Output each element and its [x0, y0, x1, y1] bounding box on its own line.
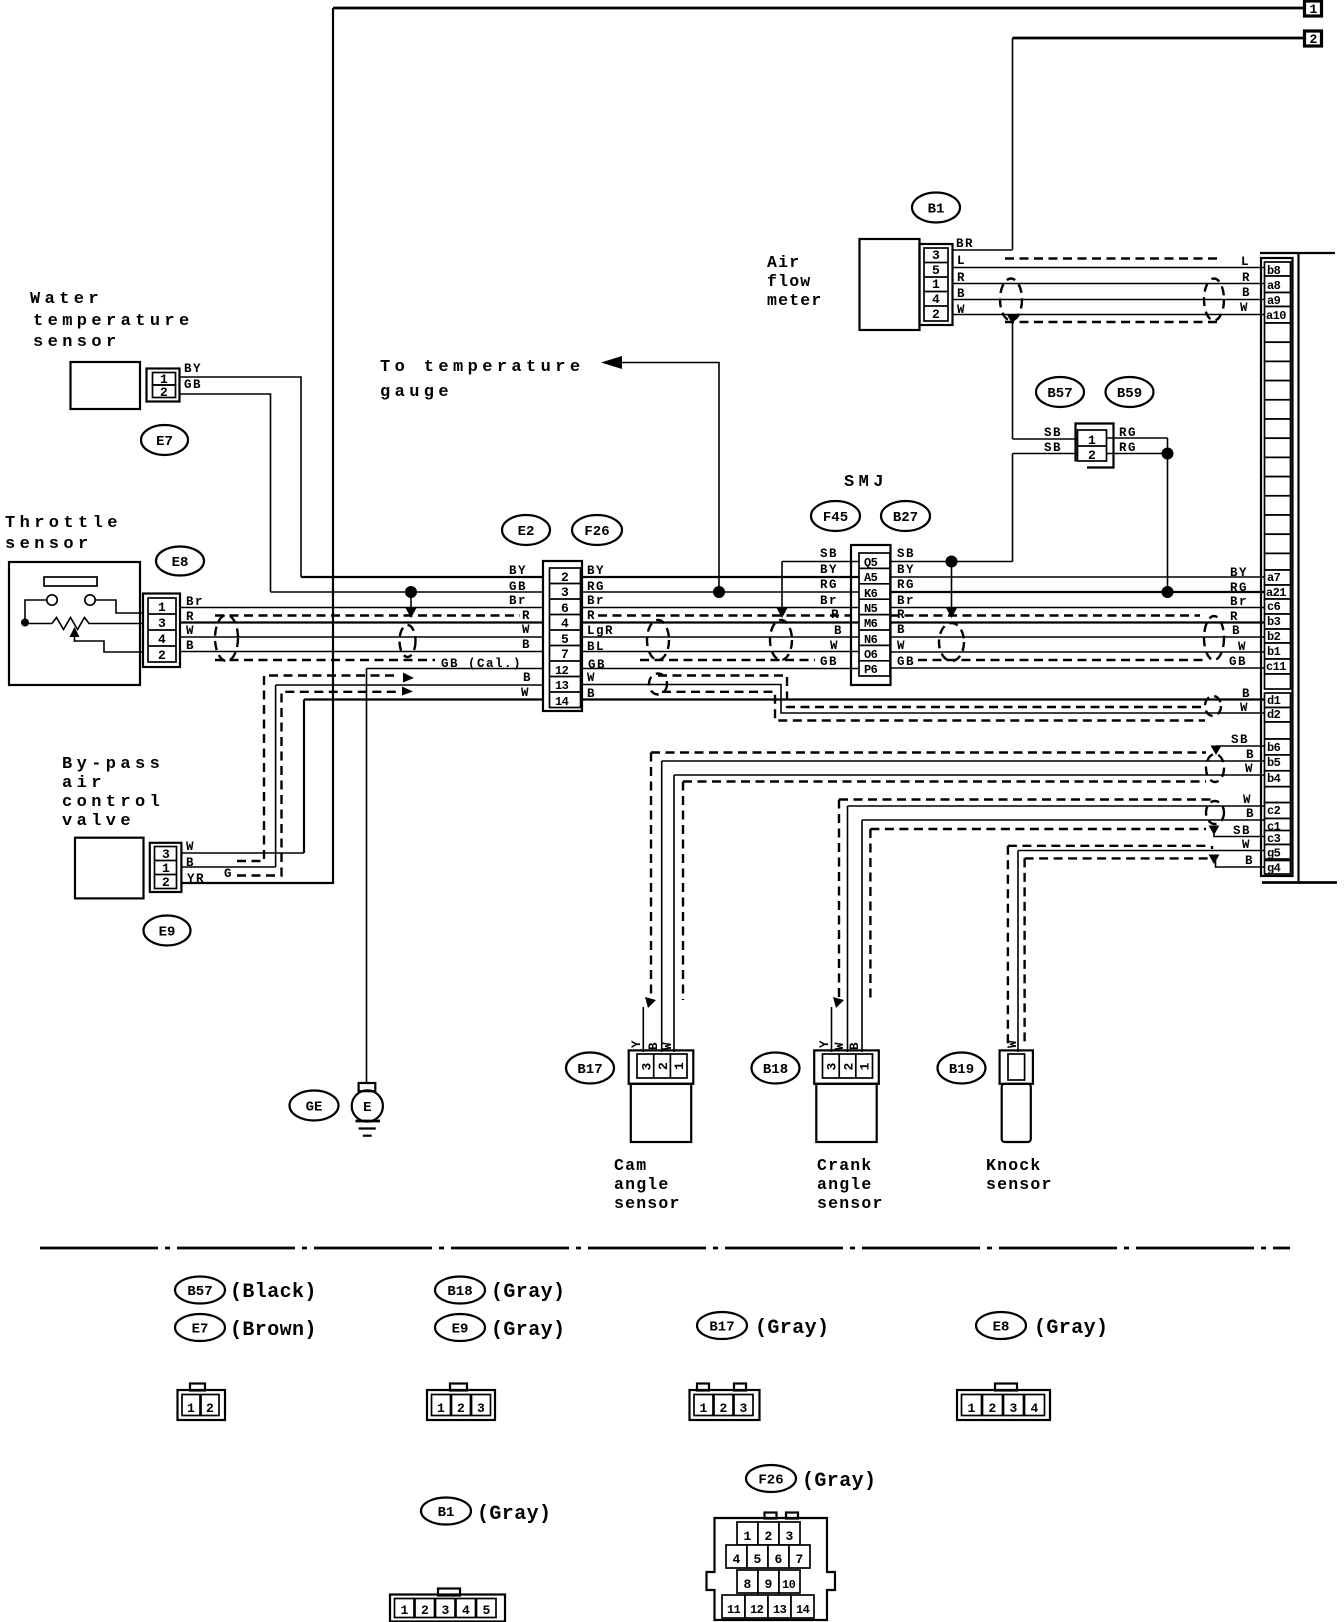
svg-text:R: R — [897, 608, 906, 622]
svg-text:Knock: Knock — [986, 1156, 1042, 1175]
svg-text:g4: g4 — [1267, 862, 1281, 876]
svg-text:3: 3 — [786, 1529, 794, 1544]
svg-text:Y: Y — [630, 1039, 644, 1048]
svg-text:air: air — [62, 774, 106, 793]
svg-text:sensor: sensor — [817, 1194, 884, 1213]
svg-text:b1: b1 — [1267, 645, 1281, 659]
svg-text:W: W — [1006, 1039, 1020, 1048]
svg-text:Water: Water — [30, 290, 103, 309]
svg-text:Br: Br — [587, 594, 605, 608]
svg-text:5: 5 — [483, 1603, 491, 1618]
svg-text:Y: Y — [818, 1039, 832, 1048]
svg-text:temperature: temperature — [33, 312, 194, 331]
svg-text:c2: c2 — [1267, 804, 1281, 818]
svg-text:b8: b8 — [1267, 264, 1281, 278]
svg-text:2: 2 — [160, 385, 168, 400]
svg-text:3: 3 — [1010, 1401, 1018, 1416]
svg-text:B57: B57 — [1047, 386, 1072, 402]
svg-text:E7: E7 — [156, 434, 173, 450]
svg-text:O6: O6 — [864, 648, 878, 662]
svg-text:b4: b4 — [1267, 772, 1281, 786]
svg-text:SMJ: SMJ — [844, 473, 888, 492]
svg-text:valve: valve — [62, 812, 135, 831]
svg-text:c6: c6 — [1267, 600, 1281, 614]
svg-text:2: 2 — [720, 1401, 728, 1416]
svg-text:B18: B18 — [763, 1062, 788, 1078]
svg-text:B27: B27 — [893, 510, 918, 526]
svg-text:1: 1 — [187, 1401, 195, 1416]
svg-text:1: 1 — [744, 1529, 752, 1544]
svg-text:8: 8 — [744, 1577, 752, 1592]
svg-text:a21: a21 — [1266, 586, 1286, 600]
svg-text:3: 3 — [442, 1603, 450, 1618]
svg-text:B: B — [1232, 624, 1241, 638]
svg-text:B: B — [1245, 854, 1254, 868]
svg-text:B18: B18 — [447, 1284, 472, 1300]
svg-text:7: 7 — [561, 647, 569, 662]
svg-text:B57: B57 — [187, 1284, 212, 1300]
svg-text:(Gray): (Gray) — [1034, 1317, 1108, 1340]
svg-text:4: 4 — [158, 632, 166, 647]
svg-text:W: W — [833, 1041, 847, 1050]
svg-text:Br: Br — [897, 594, 915, 608]
svg-text:BY: BY — [509, 564, 527, 578]
svg-text:BY: BY — [820, 563, 838, 577]
svg-text:GB: GB — [509, 580, 527, 594]
svg-text:3: 3 — [740, 1401, 748, 1416]
svg-text:d2: d2 — [1267, 708, 1281, 722]
svg-text:B: B — [587, 687, 596, 701]
svg-text:2: 2 — [158, 648, 166, 663]
svg-text:G: G — [224, 867, 233, 881]
svg-text:10: 10 — [782, 1578, 796, 1592]
svg-text:13: 13 — [555, 679, 569, 693]
svg-text:sensor: sensor — [986, 1175, 1053, 1194]
svg-text:To temperature: To temperature — [380, 358, 584, 377]
svg-text:b2: b2 — [1267, 630, 1281, 644]
svg-text:1: 1 — [968, 1401, 976, 1416]
svg-text:RG: RG — [897, 578, 915, 592]
svg-text:4: 4 — [1031, 1401, 1039, 1416]
svg-text:E7: E7 — [192, 1322, 209, 1338]
svg-text:Br: Br — [1230, 595, 1248, 609]
svg-text:B17: B17 — [577, 1062, 602, 1078]
svg-text:1: 1 — [932, 277, 940, 292]
svg-text:RG: RG — [1230, 581, 1248, 595]
svg-text:gauge: gauge — [380, 383, 453, 402]
svg-text:2: 2 — [421, 1603, 429, 1618]
svg-text:(Black): (Black) — [230, 1281, 317, 1304]
svg-text:angle: angle — [614, 1175, 670, 1194]
svg-text:3: 3 — [158, 616, 166, 631]
svg-text:(Gray): (Gray) — [802, 1470, 876, 1493]
svg-text:M6: M6 — [864, 617, 878, 631]
svg-text:3: 3 — [640, 1063, 655, 1071]
svg-text:c3: c3 — [1267, 832, 1281, 846]
svg-text:d1: d1 — [1267, 694, 1281, 708]
svg-text:14: 14 — [796, 1603, 810, 1617]
svg-text:B17: B17 — [709, 1320, 734, 1336]
svg-text:5: 5 — [754, 1552, 762, 1567]
svg-text:2: 2 — [989, 1401, 997, 1416]
svg-text:Air: Air — [767, 253, 800, 272]
svg-text:B: B — [522, 638, 531, 652]
svg-text:F45: F45 — [823, 510, 848, 526]
svg-text:6: 6 — [561, 601, 569, 616]
svg-text:2: 2 — [842, 1063, 857, 1071]
svg-text:1: 1 — [162, 861, 170, 876]
svg-text:b3: b3 — [1267, 615, 1281, 629]
svg-text:4: 4 — [932, 292, 940, 307]
svg-text:sensor: sensor — [5, 535, 93, 554]
svg-text:N6: N6 — [864, 633, 878, 647]
svg-text:2: 2 — [1310, 32, 1318, 47]
svg-text:BY: BY — [587, 564, 605, 578]
svg-text:B: B — [848, 1041, 862, 1050]
svg-text:SB: SB — [1231, 733, 1249, 747]
svg-text:11: 11 — [727, 1603, 741, 1617]
svg-text:(Brown): (Brown) — [230, 1319, 317, 1342]
svg-text:B: B — [186, 856, 195, 870]
svg-text:1: 1 — [858, 1063, 873, 1071]
svg-text:P6: P6 — [864, 663, 878, 677]
svg-text:1: 1 — [1310, 2, 1318, 17]
svg-text:sensor: sensor — [33, 333, 121, 352]
svg-text:1: 1 — [672, 1062, 687, 1070]
svg-text:W: W — [897, 639, 906, 653]
svg-text:W: W — [521, 686, 530, 700]
svg-text:W: W — [186, 624, 195, 638]
svg-text:SB: SB — [1044, 426, 1062, 440]
svg-text:W: W — [661, 1041, 675, 1050]
svg-text:1: 1 — [1088, 433, 1096, 448]
svg-text:SB: SB — [897, 547, 915, 561]
svg-text:B: B — [1242, 286, 1251, 300]
svg-text:3: 3 — [477, 1401, 485, 1416]
svg-text:GB: GB — [1229, 655, 1247, 669]
svg-text:LgR: LgR — [587, 624, 614, 638]
svg-text:2: 2 — [1088, 448, 1096, 463]
svg-text:GB: GB — [820, 655, 838, 669]
svg-text:W: W — [1245, 762, 1254, 776]
svg-text:BY: BY — [1230, 566, 1248, 580]
svg-text:5: 5 — [932, 263, 940, 278]
svg-text:B59: B59 — [1117, 386, 1142, 402]
svg-text:RG: RG — [587, 580, 605, 594]
svg-text:E2: E2 — [518, 524, 535, 540]
svg-text:B: B — [1246, 748, 1255, 762]
svg-text:RG: RG — [820, 578, 838, 592]
svg-text:4: 4 — [462, 1603, 470, 1618]
svg-text:B: B — [523, 671, 532, 685]
svg-text:Br: Br — [820, 594, 838, 608]
svg-text:BR: BR — [956, 237, 974, 251]
svg-text:angle: angle — [817, 1175, 873, 1194]
svg-text:W: W — [1243, 793, 1252, 807]
svg-text:Cam: Cam — [614, 1156, 647, 1175]
svg-text:B1: B1 — [928, 202, 945, 218]
svg-text:1: 1 — [401, 1603, 409, 1618]
svg-text:R: R — [1230, 610, 1239, 624]
svg-text:BY: BY — [184, 362, 202, 376]
svg-text:GB (Cal.): GB (Cal.) — [441, 657, 522, 671]
svg-text:E9: E9 — [452, 1322, 469, 1338]
svg-text:E: E — [363, 1100, 371, 1116]
svg-text:B: B — [1246, 807, 1255, 821]
svg-text:By-pass: By-pass — [62, 755, 164, 774]
svg-text:2: 2 — [561, 570, 569, 585]
svg-text:a10: a10 — [1266, 309, 1286, 323]
svg-text:F26: F26 — [584, 524, 609, 540]
svg-text:B1: B1 — [438, 1505, 455, 1521]
svg-text:c11: c11 — [1266, 660, 1286, 674]
svg-text:control: control — [62, 793, 164, 812]
svg-text:5: 5 — [561, 632, 569, 647]
svg-text:W: W — [830, 639, 839, 653]
svg-text:1: 1 — [437, 1401, 445, 1416]
svg-text:B: B — [834, 624, 843, 638]
svg-text:BL: BL — [587, 640, 605, 654]
svg-text:12: 12 — [555, 664, 569, 678]
svg-text:12: 12 — [750, 1603, 764, 1617]
svg-text:3: 3 — [162, 847, 170, 862]
svg-text:R: R — [587, 609, 596, 623]
svg-text:2: 2 — [932, 307, 940, 322]
svg-text:W: W — [1240, 701, 1249, 715]
svg-text:b5: b5 — [1267, 756, 1281, 770]
svg-text:W: W — [186, 840, 195, 854]
svg-text:W: W — [1238, 640, 1247, 654]
svg-text:BY: BY — [897, 563, 915, 577]
svg-text:3: 3 — [932, 248, 940, 263]
svg-text:A5: A5 — [864, 571, 878, 585]
svg-text:2: 2 — [765, 1529, 773, 1544]
svg-text:B: B — [1242, 687, 1251, 701]
svg-text:1: 1 — [700, 1401, 708, 1416]
svg-text:R: R — [831, 608, 840, 622]
svg-text:4: 4 — [561, 616, 569, 631]
svg-text:2: 2 — [656, 1062, 671, 1070]
svg-text:B: B — [897, 623, 906, 637]
svg-text:K6: K6 — [864, 587, 878, 601]
svg-text:GB: GB — [184, 378, 202, 392]
svg-text:R: R — [522, 609, 531, 623]
svg-text:(Gray): (Gray) — [491, 1319, 565, 1342]
svg-text:W: W — [522, 623, 531, 637]
svg-text:E8: E8 — [993, 1320, 1010, 1336]
svg-text:a9: a9 — [1267, 294, 1281, 308]
svg-text:(Gray): (Gray) — [477, 1503, 551, 1526]
svg-text:Throttle: Throttle — [5, 514, 122, 533]
svg-text:SB: SB — [820, 547, 838, 561]
svg-text:L: L — [957, 254, 966, 268]
svg-text:flow: flow — [767, 272, 811, 291]
svg-text:9: 9 — [765, 1577, 773, 1592]
svg-text:GE: GE — [306, 1100, 323, 1116]
svg-text:2: 2 — [206, 1401, 214, 1416]
svg-text:GB: GB — [897, 655, 915, 669]
svg-text:Crank: Crank — [817, 1156, 873, 1175]
svg-text:W: W — [587, 671, 596, 685]
svg-text:R: R — [1242, 271, 1251, 285]
svg-text:meter: meter — [767, 291, 823, 310]
svg-text:YR: YR — [187, 872, 205, 886]
svg-text:Q5: Q5 — [864, 556, 878, 570]
svg-text:GB: GB — [588, 658, 606, 672]
svg-text:a7: a7 — [1267, 571, 1281, 585]
svg-text:(Gray): (Gray) — [755, 1317, 829, 1340]
svg-text:F26: F26 — [758, 1473, 783, 1489]
svg-text:g5: g5 — [1267, 847, 1281, 861]
svg-text:7: 7 — [796, 1552, 804, 1567]
svg-text:13: 13 — [773, 1603, 787, 1617]
svg-text:3: 3 — [825, 1063, 840, 1071]
svg-text:E8: E8 — [172, 555, 189, 571]
svg-text:sensor: sensor — [614, 1194, 681, 1213]
svg-text:B19: B19 — [949, 1062, 974, 1078]
svg-text:b6: b6 — [1267, 741, 1281, 755]
svg-text:E9: E9 — [159, 925, 176, 941]
svg-text:N5: N5 — [864, 602, 878, 616]
svg-text:a8: a8 — [1267, 279, 1281, 293]
svg-text:Br: Br — [509, 594, 527, 608]
svg-text:2: 2 — [162, 875, 170, 890]
svg-text:(Gray): (Gray) — [491, 1281, 565, 1304]
svg-text:4: 4 — [733, 1552, 741, 1567]
svg-text:L: L — [1241, 255, 1250, 269]
svg-text:B: B — [647, 1041, 661, 1050]
svg-text:W: W — [1240, 301, 1249, 315]
svg-text:1: 1 — [158, 600, 166, 615]
svg-text:6: 6 — [775, 1552, 783, 1567]
svg-text:2: 2 — [457, 1401, 465, 1416]
svg-text:3: 3 — [561, 585, 569, 600]
svg-text:14: 14 — [555, 695, 569, 709]
